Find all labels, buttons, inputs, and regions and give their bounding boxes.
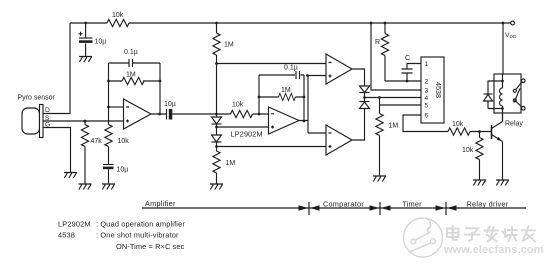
- svg-text:0.1µ: 0.1µ: [284, 65, 298, 72]
- svg-text:Timer: Timer: [402, 199, 422, 208]
- svg-text:10k: 10k: [452, 121, 464, 128]
- svg-text:LP2902M: LP2902M: [58, 220, 91, 229]
- svg-text:Amplifier: Amplifier: [145, 199, 176, 208]
- svg-text:www.elecfans.com: www.elecfans.com: [443, 244, 544, 256]
- svg-text:10k: 10k: [118, 138, 130, 145]
- svg-text:C: C: [405, 55, 410, 62]
- svg-text:Relay driver: Relay driver: [467, 199, 509, 208]
- svg-text:1: 1: [425, 61, 429, 68]
- svg-text:10µ: 10µ: [95, 39, 107, 46]
- svg-text:47k: 47k: [91, 138, 103, 145]
- svg-text:Relay: Relay: [505, 121, 523, 128]
- svg-text:6: 6: [425, 113, 429, 120]
- svg-text:10µ: 10µ: [164, 101, 176, 108]
- svg-text:1M: 1M: [224, 42, 234, 49]
- svg-text:4538: 4538: [58, 231, 75, 240]
- svg-text:10k: 10k: [462, 147, 474, 154]
- svg-text:10k: 10k: [112, 12, 124, 19]
- svg-text:1M: 1M: [126, 72, 136, 79]
- svg-text:0.1µ: 0.1µ: [124, 49, 138, 56]
- svg-text:D: D: [45, 107, 50, 114]
- svg-text:G: G: [45, 122, 50, 129]
- svg-text:: One shot multi-vibrator: : One shot multi-vibrator: [96, 231, 179, 240]
- svg-text:LP2902M: LP2902M: [231, 130, 263, 139]
- svg-text:Comparator: Comparator: [323, 199, 364, 208]
- svg-text:ON-Time = R×C sec: ON-Time = R×C sec: [116, 242, 185, 251]
- svg-text:5: 5: [425, 103, 429, 110]
- svg-text:1M: 1M: [281, 87, 291, 94]
- svg-text:4538: 4538: [434, 82, 443, 98]
- svg-text:3: 3: [425, 88, 429, 95]
- svg-text:: Quad operation amplifier: : Quad operation amplifier: [96, 220, 185, 229]
- svg-text:10k: 10k: [232, 102, 244, 109]
- svg-text:1M: 1M: [389, 123, 399, 130]
- svg-text:2: 2: [425, 79, 429, 86]
- svg-text:R: R: [375, 39, 380, 46]
- svg-text:10µ: 10µ: [117, 167, 129, 174]
- svg-text:Pyro sensor: Pyro sensor: [18, 95, 56, 102]
- svg-text:4: 4: [425, 95, 429, 102]
- svg-text:1M: 1M: [226, 160, 236, 167]
